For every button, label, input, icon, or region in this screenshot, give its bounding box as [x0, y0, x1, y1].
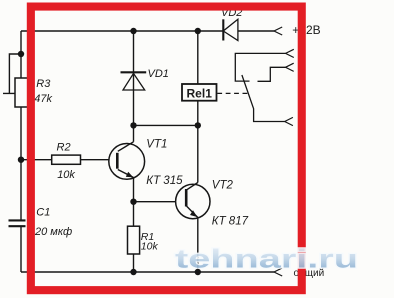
- wire VT2 emitter column: [197, 218, 199, 273]
- transistor VT1 emitter: [118, 170, 134, 178]
- terminal arm: [285, 117, 293, 125]
- transistor VT2 base bar: [185, 189, 188, 207]
- transistor VT2 emitter: [187, 206, 198, 217]
- wire R1 column: [133, 202, 135, 272]
- terminal +12V: [274, 27, 282, 35]
- wire VD2 cathode to +12V terminal: [238, 30, 274, 32]
- terminal throw upper: [286, 63, 294, 71]
- wire left column lower: [20, 227, 22, 272]
- resistor R3 body: [15, 78, 29, 107]
- resistor R1 body: [128, 226, 140, 254]
- diode VD1: [121, 72, 147, 90]
- node dot R1 bottom: [130, 269, 136, 275]
- wire bottom rail: [21, 271, 274, 273]
- svg-text:tehnari.ru: tehnari.ru: [175, 244, 358, 274]
- transistor Q1 VT1 circle: [109, 144, 145, 180]
- transistor VT2 collector: [187, 183, 198, 190]
- svg-text:C1: C1: [36, 207, 50, 219]
- transistor VT1 emitter arrow: [126, 172, 134, 178]
- svg-text:КТ 817: КТ 817: [212, 215, 249, 227]
- diode VD2: [223, 19, 238, 40]
- svg-text:VT2: VT2: [212, 180, 234, 192]
- svg-text:VD1: VD1: [148, 68, 169, 80]
- svg-text:R2: R2: [57, 141, 71, 153]
- svg-text:+12В: +12В: [292, 23, 320, 37]
- capacitor C1 plates: [9, 220, 26, 226]
- node dot VD1 top: [130, 28, 136, 34]
- svg-text:20 мкф: 20 мкф: [34, 226, 72, 238]
- wire top rail: [21, 30, 223, 32]
- node dot VD1 bottom: [130, 122, 136, 128]
- wire R2 base row: [21, 159, 117, 161]
- relay actuation dashed link: [217, 92, 247, 94]
- relay contact common: [235, 53, 285, 81]
- wire R3 wiper: [3, 54, 21, 93]
- transistor VT1 collector: [118, 142, 134, 152]
- relay coil Rel1 box: [182, 84, 217, 101]
- node dot VT2 emitter: [195, 269, 201, 275]
- terminal common ground: [274, 268, 282, 276]
- wire Rel1 VT2 column: [197, 31, 199, 183]
- wire left column upper: [20, 31, 22, 220]
- relay contact throw upper: [258, 67, 286, 81]
- node dot Rel1 top: [195, 28, 201, 34]
- svg-text:10k: 10k: [57, 169, 75, 181]
- svg-text:10k: 10k: [141, 241, 159, 253]
- svg-text:R3: R3: [36, 78, 51, 90]
- node dot VT1 emitter: [130, 199, 136, 205]
- red annotation frame: [31, 7, 302, 291]
- wire VT1 emitter to VT2 base row: [134, 178, 187, 202]
- transistor VT1 base bar: [116, 153, 119, 169]
- svg-text:47k: 47k: [34, 93, 52, 105]
- transistor VT2 emitter arrow: [190, 210, 197, 217]
- svg-text:Rel1: Rel1: [187, 87, 213, 101]
- terminal common: [286, 49, 294, 57]
- svg-text:КТ 315: КТ 315: [146, 175, 183, 187]
- relay contact arm: [242, 75, 285, 122]
- transistor Q2 VT2 circle: [176, 184, 210, 218]
- svg-text:VT1: VT1: [146, 139, 167, 151]
- node dot R3 wiper: [18, 51, 24, 57]
- wire VD1 VT1 column: [133, 31, 135, 142]
- wire coil parallel row: [134, 124, 198, 126]
- node dot R2 input: [18, 157, 24, 163]
- node dot Rel1 bottom: [195, 122, 201, 128]
- resistor R2 body: [52, 155, 81, 164]
